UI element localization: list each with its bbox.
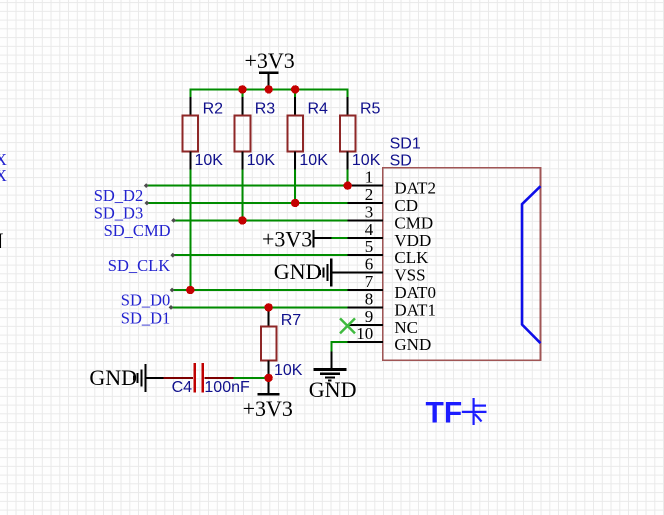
wire SD_D2 row (pin1) xyxy=(145,185,348,187)
ground GND at pin 6 xyxy=(274,259,348,287)
wire SD_D1 row (pin8) xyxy=(170,306,348,308)
svg-text:NC: NC xyxy=(394,318,418,337)
pin 2 CD xyxy=(348,185,418,215)
svg-text:10K: 10K xyxy=(352,152,381,169)
junction pin2/R4 xyxy=(291,199,299,207)
svg-text:DAT1: DAT1 xyxy=(394,300,436,319)
wire SD_CLK row (pin5) xyxy=(172,254,348,256)
resistor R4 xyxy=(287,97,328,170)
svg-text:CD: CD xyxy=(394,196,418,215)
svg-text:R4: R4 xyxy=(308,100,329,117)
svg-text:2: 2 xyxy=(365,185,374,204)
svg-text:+3V3: +3V3 xyxy=(245,48,295,73)
svg-text:SD1: SD1 xyxy=(390,135,421,152)
svg-text:DAT0: DAT0 xyxy=(394,283,436,302)
ground GND below pin 10 (earth style) xyxy=(309,352,357,403)
wire +3V3 to pin4 xyxy=(332,237,348,239)
junction SD_D0/R2 xyxy=(186,286,194,294)
connector SD1 box xyxy=(383,168,541,361)
svg-text:R2: R2 xyxy=(203,100,224,117)
svg-text:7: 7 xyxy=(365,272,374,291)
wire R3 column top stub xyxy=(241,88,243,98)
pin 1 DAT2 xyxy=(348,168,436,198)
wire SD_CMD row (pin3) xyxy=(172,219,347,221)
junction pin3/R3 xyxy=(238,216,246,224)
svg-text:VDD: VDD xyxy=(394,231,431,250)
junction dots xyxy=(186,85,352,382)
capacitor C4 xyxy=(146,363,250,396)
svg-text:8: 8 xyxy=(365,289,374,308)
svg-text:X: X xyxy=(0,166,7,185)
power +3V3 at pin 4 xyxy=(262,226,332,251)
svg-text:R5: R5 xyxy=(360,100,381,117)
pin 10 GND xyxy=(348,324,432,354)
power +3V3 top symbol xyxy=(245,48,295,89)
power +3V3 below R7 xyxy=(243,394,293,421)
wire R3 column bottom to SD_CMD row xyxy=(241,169,243,221)
wire top +3V3 rail xyxy=(189,88,348,90)
svg-text:GND: GND xyxy=(89,365,137,390)
wire R4 column top stub xyxy=(294,88,296,98)
svg-text:TF: TF xyxy=(426,396,463,429)
svg-text:10K: 10K xyxy=(274,362,303,379)
svg-text:SD_D1: SD_D1 xyxy=(121,309,171,328)
svg-text:GND: GND xyxy=(274,259,322,284)
TF card notch outline xyxy=(522,186,541,343)
wire R4 column bottom to SD_D3 row xyxy=(294,169,296,204)
svg-text:10K: 10K xyxy=(195,152,224,169)
junction on +3V3 rail at R3 xyxy=(238,85,246,93)
wire pin10 to GND elbow xyxy=(331,342,347,352)
wire R5 column top stub xyxy=(347,88,349,98)
svg-text:10K: 10K xyxy=(247,152,276,169)
wire R2 column bottom to SD_D0 row xyxy=(189,169,191,291)
svg-text:9: 9 xyxy=(365,307,374,326)
wire SD_D0 row (pin7) xyxy=(171,289,348,291)
pin 7 DAT0 xyxy=(348,272,436,302)
svg-text:SD_D3: SD_D3 xyxy=(94,204,144,223)
svg-text:4: 4 xyxy=(365,220,374,239)
no-ERC marker pin 9 xyxy=(340,318,355,333)
svg-text:N: N xyxy=(0,228,4,253)
svg-text:R7: R7 xyxy=(281,312,302,329)
svg-text:CLK: CLK xyxy=(394,248,429,267)
pin 8 DAT1 xyxy=(348,289,436,319)
svg-text:C4: C4 xyxy=(172,379,193,396)
svg-text:5: 5 xyxy=(365,237,374,256)
junction C4/R7 node xyxy=(264,374,272,382)
ground GND left of C4 xyxy=(89,364,145,392)
pin 4 VDD xyxy=(348,220,432,250)
junction pin1/R5 xyxy=(344,181,352,189)
junction on +3V3 rail at power stub xyxy=(265,85,273,93)
svg-text:SD_D2: SD_D2 xyxy=(94,186,144,205)
resistor R2 xyxy=(183,97,224,170)
svg-text:SD_CMD: SD_CMD xyxy=(104,221,171,240)
junction SD_D1/R7 xyxy=(264,303,272,311)
resistor R5 xyxy=(340,97,381,170)
svg-text:SD_D0: SD_D0 xyxy=(121,291,171,310)
svg-text:3: 3 xyxy=(365,202,374,221)
svg-text:SD: SD xyxy=(390,153,412,170)
svg-text:SD_CLK: SD_CLK xyxy=(108,256,170,275)
svg-text:1: 1 xyxy=(365,168,374,187)
svg-text:10: 10 xyxy=(356,324,373,343)
dangling wire end markers xyxy=(144,183,176,310)
resistor R3 xyxy=(235,97,276,170)
svg-text:CMD: CMD xyxy=(394,213,433,232)
svg-text:6: 6 xyxy=(365,255,374,274)
pin 5 CLK xyxy=(348,237,429,267)
pin 6 VSS xyxy=(332,255,426,285)
svg-text:10K: 10K xyxy=(299,152,328,169)
wire SD_D3 row (pin2) xyxy=(146,202,348,204)
svg-text:+3V3: +3V3 xyxy=(262,226,312,251)
svg-text:100nF: 100nF xyxy=(204,379,250,396)
node TF card title CJK glyph (hand drawn) xyxy=(462,398,487,425)
svg-text:GND: GND xyxy=(394,335,431,354)
svg-text:GND: GND xyxy=(309,377,357,402)
svg-text:R3: R3 xyxy=(255,100,276,117)
pin 9 NC xyxy=(348,307,418,337)
wire C4 to R7 node xyxy=(234,377,269,379)
svg-text:+3V3: +3V3 xyxy=(243,396,293,421)
wire R2 column top stub xyxy=(189,88,191,98)
wire R5 column bottom to SD_D2 row xyxy=(347,169,349,187)
svg-text:DAT2: DAT2 xyxy=(394,179,436,198)
junction on +3V3 rail at R4 xyxy=(291,85,299,93)
pin 3 CMD xyxy=(348,202,433,232)
resistor R7 xyxy=(261,307,303,394)
svg-text:VSS: VSS xyxy=(394,266,425,285)
